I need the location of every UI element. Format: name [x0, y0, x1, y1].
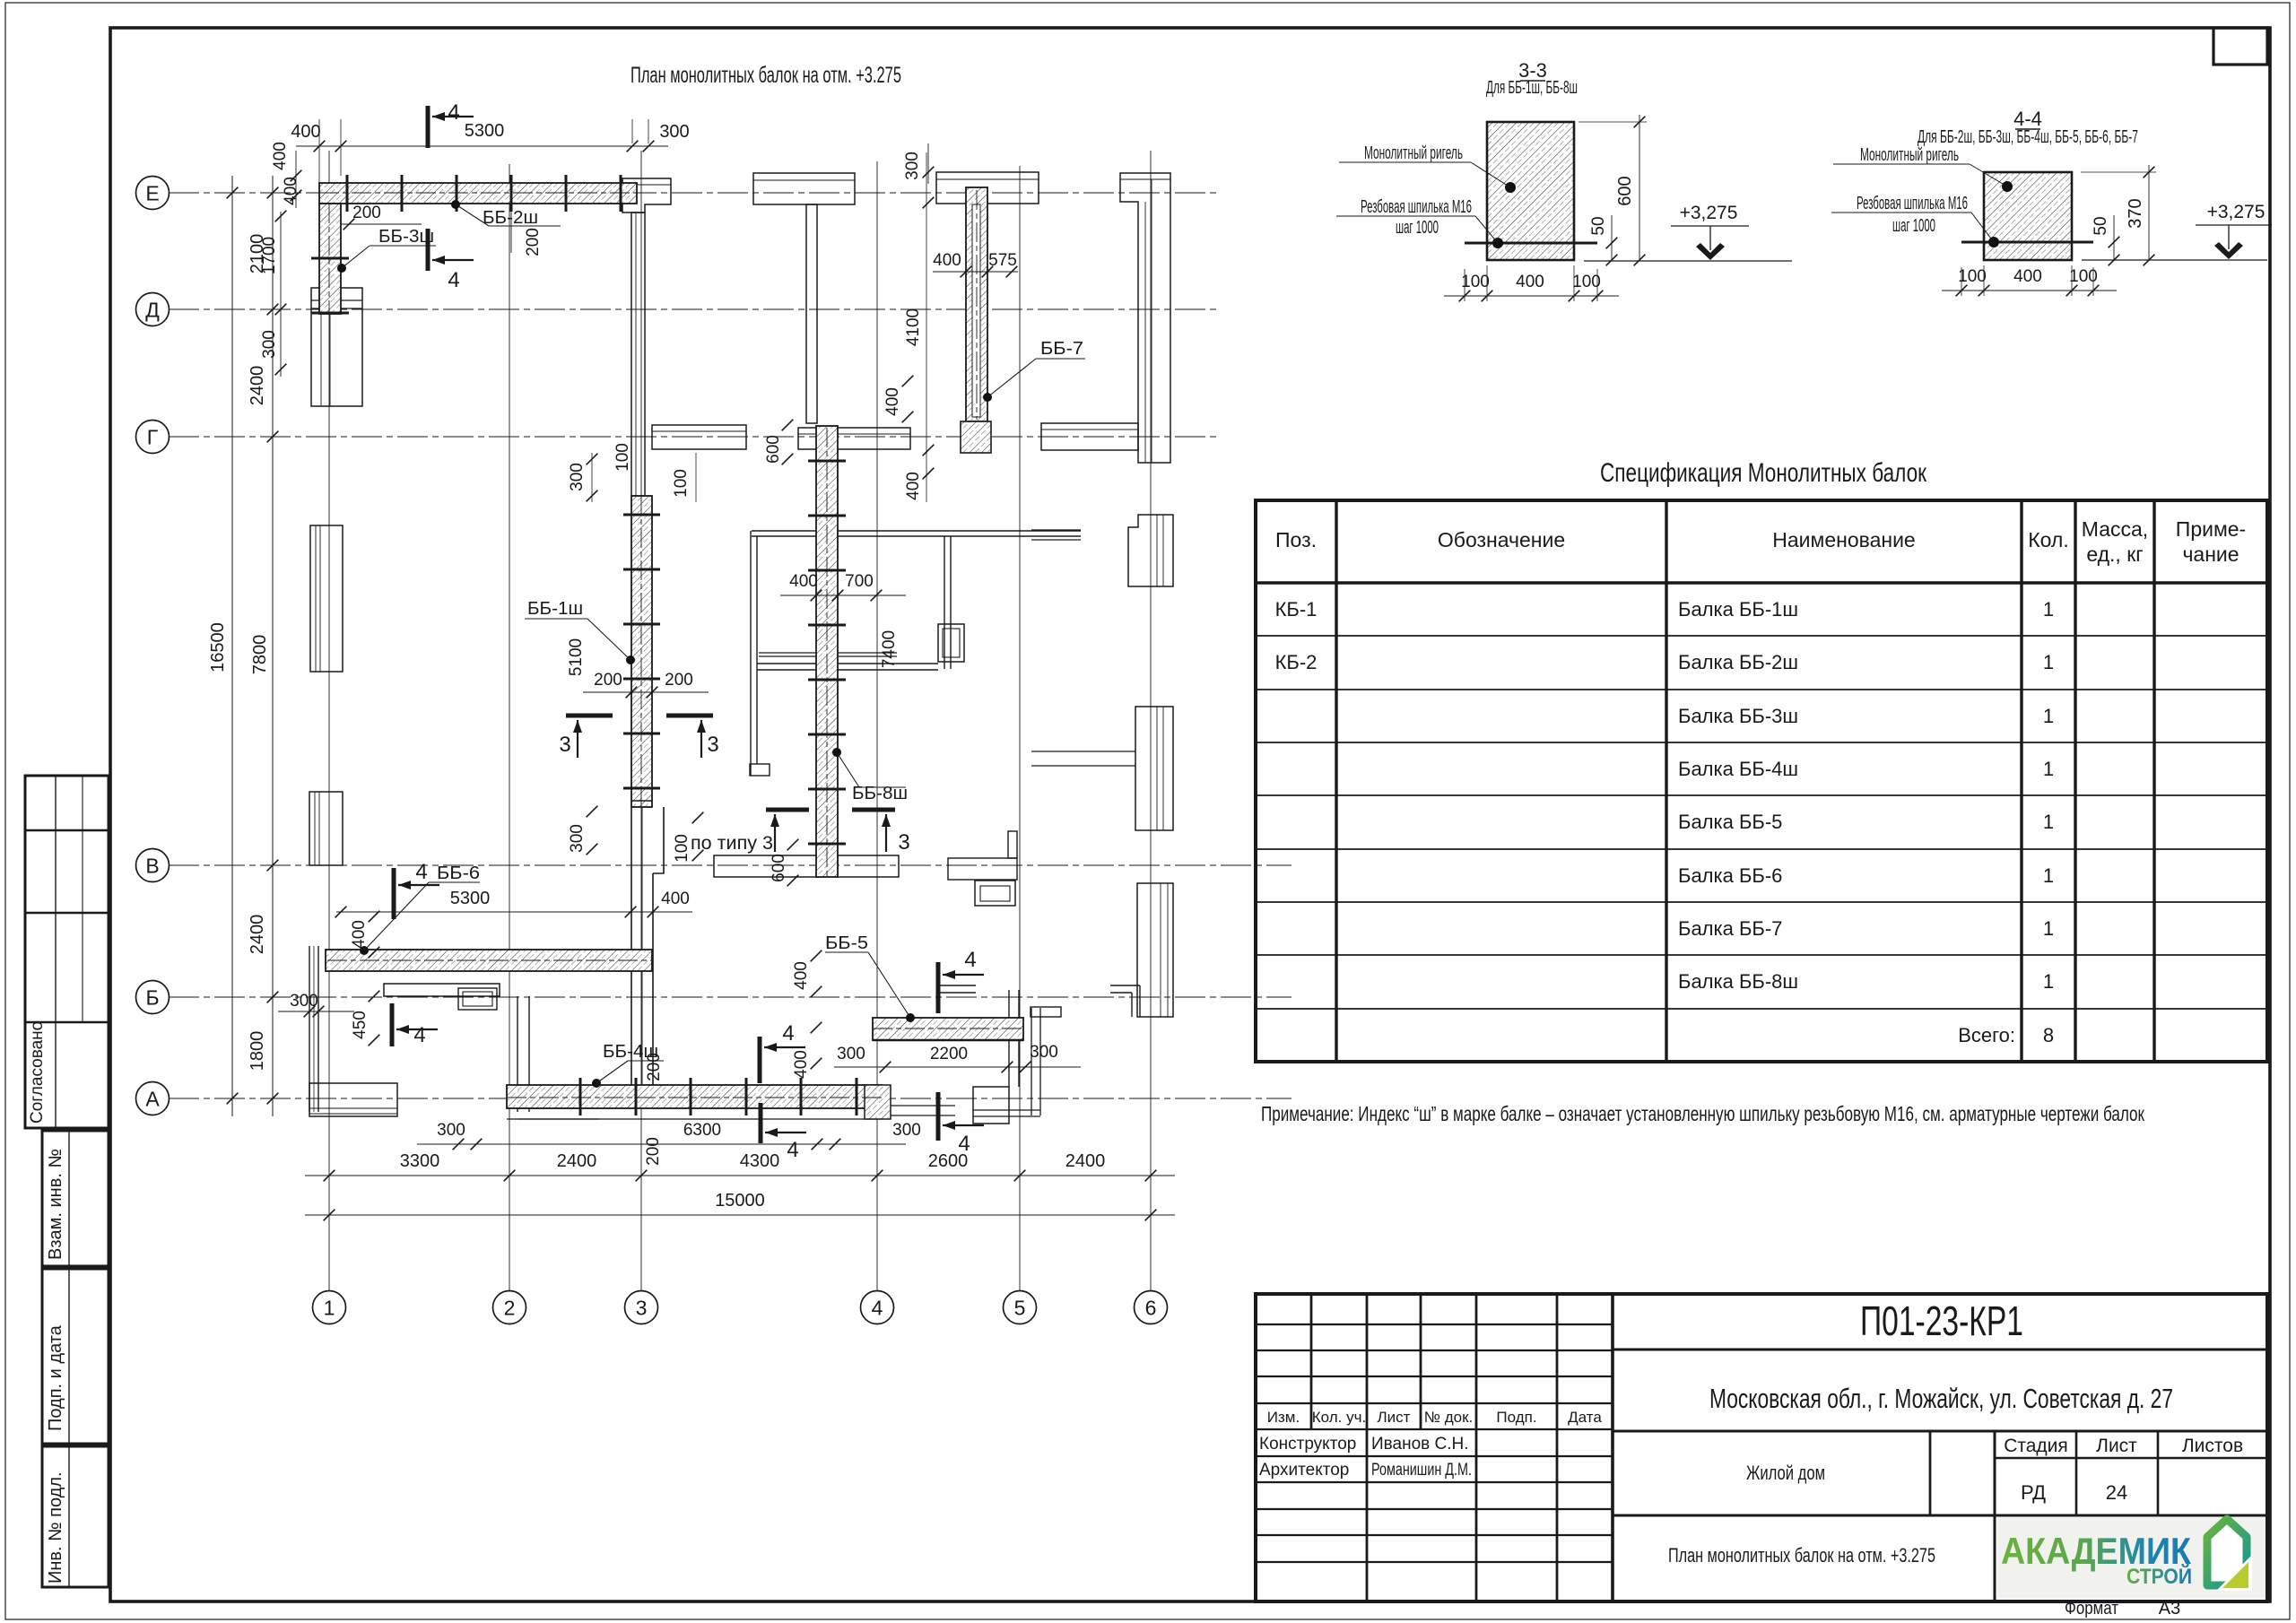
- svg-text:1: 1: [324, 1296, 335, 1319]
- stud tick BB-8sh 7: [808, 788, 846, 791]
- interior small wall x1150 y591: [1031, 529, 1081, 531]
- section mark 3 left arrow: [577, 720, 578, 758]
- axis circle D: [136, 293, 170, 326]
- centerline BB-5: [873, 1028, 1023, 1029]
- svg-text:Изм.: Изм.: [1267, 1409, 1300, 1426]
- centerline BB-6: [327, 959, 652, 961]
- wall on axis A segment x990: [888, 1105, 955, 1107]
- stud tick BB-1sh 1: [623, 514, 660, 516]
- svg-text:Дата: Дата: [1568, 1409, 1602, 1426]
- svg-text:Б: Б: [145, 985, 159, 1009]
- wall on axis A under beam bottom line: [507, 1118, 882, 1120]
- svg-text:П01-23-КР1: П01-23-КР1: [1860, 1298, 2023, 1344]
- svg-text:Монолитный ригель: Монолитный ригель: [1860, 145, 1959, 165]
- svg-text:Масса,: Масса,: [2082, 517, 2148, 541]
- section 4-4 ground line: [2082, 259, 2267, 261]
- svg-text:Взам. инв. №: Взам. инв. №: [46, 1149, 65, 1260]
- left stamp: Soglasovano box: [25, 776, 109, 1128]
- axis line 3 vertical: [640, 151, 642, 1291]
- wall top right horizontal on axis E: [936, 172, 1039, 204]
- section mark 3 typ left bar: [766, 808, 809, 812]
- title block stage grid: [1929, 1431, 1932, 1515]
- stud tick BB-3sh 2: [311, 312, 349, 315]
- svg-text:50: 50: [2092, 216, 2110, 235]
- section mark 3 right arrow: [700, 720, 702, 758]
- centerline axis 1 through BB-3sh: [328, 204, 330, 316]
- axis circle 6: [1135, 1291, 1168, 1324]
- spec table grid: [1256, 500, 2267, 1062]
- stud tick BB-2sh 4: [510, 175, 513, 212]
- svg-text:1: 1: [2043, 705, 2054, 727]
- axis circle 5: [1004, 1291, 1037, 1324]
- svg-text:Кол. уч.: Кол. уч.: [1312, 1409, 1366, 1426]
- section 4-4 rigel dot: [2002, 181, 2013, 192]
- stud tick BB-4sh 4: [745, 1078, 748, 1115]
- wall arm top right of step: [1031, 1007, 1061, 1017]
- left dim line axis segments: [272, 176, 274, 1116]
- svg-text:А3: А3: [2159, 1599, 2180, 1619]
- svg-text:Балка ББ-5: Балка ББ-5: [1678, 811, 1782, 833]
- dim 300-6300-300 line below A: [417, 1143, 906, 1145]
- title block frame: [1256, 1294, 2267, 1601]
- svg-text:ББ-2ш: ББ-2ш: [483, 208, 538, 228]
- section 4-4 dim 370: [2148, 165, 2150, 261]
- axis line E horizontal: [169, 192, 1218, 194]
- svg-text:Формат: Формат: [2065, 1599, 2118, 1619]
- wall T horizontal on axis E: [753, 173, 855, 204]
- wall pier axis1 G-V upper: [310, 525, 343, 672]
- svg-text:400: 400: [1516, 273, 1544, 291]
- interior wall horizontal y743: [757, 663, 938, 664]
- svg-text:1: 1: [2043, 598, 2054, 621]
- dim 400-575 BB-7: [933, 271, 1018, 273]
- axis circle 2: [493, 1291, 526, 1324]
- window box below V: [975, 881, 1015, 906]
- svg-text:1: 1: [2043, 758, 2054, 780]
- bottom dim line segments: [305, 1175, 1175, 1176]
- title block bottom band separator: [1613, 1515, 2267, 1517]
- svg-text:300: 300: [568, 824, 587, 853]
- svg-text:Кол.: Кол.: [2028, 528, 2069, 551]
- axis line B horizontal: [169, 996, 1291, 998]
- section 4-4 concrete body: [1984, 172, 2072, 260]
- svg-text:5100: 5100: [567, 638, 586, 676]
- stud tick BB-4sh 2: [635, 1078, 638, 1115]
- wall on axis V left part: [714, 855, 818, 877]
- svg-text:100: 100: [672, 469, 691, 498]
- beam BB-8sh vertical: [816, 426, 838, 877]
- svg-text:2400: 2400: [557, 1151, 597, 1171]
- centerline BB-8sh: [826, 428, 828, 877]
- wall vertical x1125 below B: [1008, 990, 1010, 1087]
- axis circle V: [136, 849, 170, 882]
- svg-text:Балка ББ-6: Балка ББ-6: [1678, 864, 1782, 887]
- svg-text:РД: РД: [2021, 1481, 2046, 1504]
- section mark 3 left bar: [566, 714, 613, 718]
- wall below BB-1sh: [631, 807, 632, 1085]
- svg-text:2400: 2400: [248, 915, 267, 955]
- svg-text:Иванов С.Н.: Иванов С.Н.: [1371, 1435, 1469, 1454]
- dim 400-700 mid: [780, 595, 906, 596]
- section mark 4 BB6 bottom arrow: [396, 1028, 438, 1030]
- stud tick BB-2sh 6: [620, 175, 622, 212]
- svg-text:А: А: [145, 1087, 160, 1110]
- beam BB-6 horizontal: [326, 950, 652, 971]
- wall pier axis1 at D: [311, 288, 362, 406]
- svg-text:100: 100: [1958, 267, 1987, 286]
- centerline axis E through BB-2sh: [319, 192, 637, 194]
- svg-text:2600: 2600: [928, 1151, 969, 1171]
- section 3-3 dim 50: [1611, 215, 1613, 261]
- svg-text:7400: 7400: [880, 630, 899, 668]
- svg-text:Подп.: Подп.: [1496, 1409, 1536, 1426]
- axis circle E: [136, 177, 170, 210]
- axis line 4 vertical: [876, 161, 878, 1291]
- svg-text:600: 600: [764, 435, 783, 464]
- stud tick BB-4sh 6: [856, 1078, 858, 1115]
- stud tick BB-1sh 2: [623, 568, 660, 571]
- interior pier right x1258 upper: [1128, 515, 1173, 586]
- svg-text:700: 700: [845, 572, 874, 591]
- svg-text:чание: чание: [2182, 542, 2239, 566]
- dim extension line x1033: [926, 152, 927, 502]
- section mark 3 typ right arrow: [885, 814, 887, 852]
- svg-text:200: 200: [665, 671, 693, 690]
- svg-text:1: 1: [2043, 651, 2054, 673]
- bottom dim line 15000: [305, 1214, 1175, 1216]
- svg-text:Лист: Лист: [2096, 1436, 2137, 1456]
- centerline axis A through BB-4sh: [507, 1097, 882, 1098]
- svg-text:Примечание: Индекс “ш” в марке: Примечание: Индекс “ш” в марке балке – о…: [1261, 1102, 2145, 1125]
- interior wall vertical x1056: [944, 536, 945, 669]
- wall on axis B segment right of BB-5: [940, 985, 976, 986]
- pier axis6 below V: [1137, 883, 1173, 1017]
- section 4-4 dim 50: [2113, 215, 2115, 261]
- wall left room B-A vertical: [309, 946, 310, 1112]
- svg-text:300: 300: [1030, 1043, 1058, 1062]
- svg-text:1: 1: [2043, 917, 2054, 940]
- wall notch at V on BB-1sh wall: [653, 807, 664, 873]
- svg-text:300: 300: [903, 152, 922, 180]
- svg-text:Приме-: Приме-: [2176, 517, 2246, 541]
- section 3-3 stud dot: [1492, 238, 1503, 248]
- left stamp: Vzam inv box: [42, 1131, 109, 1266]
- svg-text:В: В: [145, 854, 159, 877]
- svg-text:2100: 2100: [248, 234, 267, 274]
- svg-text:Стадия: Стадия: [2004, 1436, 2068, 1456]
- title block doc number: [1613, 1349, 2267, 1351]
- stud tick BB-1sh 3: [623, 623, 660, 626]
- svg-text:шаг 1000: шаг 1000: [1396, 218, 1439, 238]
- leader BB-6: [360, 946, 369, 955]
- svg-text:100: 100: [613, 443, 632, 472]
- svg-text:4: 4: [448, 100, 459, 125]
- svg-text:3: 3: [707, 733, 718, 757]
- svg-text:ББ-5: ББ-5: [825, 933, 868, 953]
- interior wall horizontal y594: [752, 530, 1081, 532]
- section 4-4 bottom dims: [1961, 267, 1962, 296]
- svg-text:Листов: Листов: [2182, 1436, 2243, 1456]
- svg-text:100: 100: [673, 834, 691, 863]
- section mark 4 BB4sh upper arrow: [764, 1046, 805, 1048]
- axis line A horizontal: [169, 1098, 1291, 1099]
- wall on axis G far right: [1041, 423, 1138, 450]
- svg-text:Балка ББ-3ш: Балка ББ-3ш: [1678, 705, 1798, 727]
- svg-text:Согласовано: Согласовано: [28, 1021, 47, 1124]
- svg-text:400: 400: [2013, 267, 2042, 286]
- svg-text:План монолитных балок на отм.: План монолитных балок на отм. +3.275: [1668, 1544, 1935, 1567]
- stud tick BB-2sh 5: [565, 175, 568, 212]
- section mark 4 BB5 bottom bar: [936, 1092, 941, 1141]
- svg-text:400: 400: [792, 961, 811, 990]
- svg-text:Всего:: Всего:: [1958, 1024, 2015, 1046]
- svg-text:15000: 15000: [715, 1191, 765, 1211]
- wall vertical x1150 step: [1031, 1008, 1032, 1115]
- stud tick BB-8sh 5: [808, 679, 846, 681]
- svg-text:200: 200: [352, 204, 381, 222]
- svg-text:Для ББ-1ш, ББ-8ш: Для ББ-1ш, ББ-8ш: [1486, 78, 1578, 98]
- stud tick BB-8sh 1: [808, 460, 846, 463]
- stud tick BB-4sh 5: [800, 1078, 803, 1115]
- left inner dim line segments: [280, 212, 282, 377]
- section 3-3 dim 600: [1639, 115, 1640, 261]
- svg-text:200: 200: [594, 671, 622, 690]
- svg-text:Монолитный ригель: Монолитный ригель: [1364, 143, 1463, 163]
- svg-text:4300: 4300: [740, 1151, 780, 1171]
- svg-text:+3,275: +3,275: [1680, 203, 1738, 223]
- svg-text:ББ-1ш: ББ-1ш: [527, 599, 583, 619]
- section mark 4 top arrow: [432, 116, 474, 117]
- svg-text:шаг 1000: шаг 1000: [1892, 216, 1935, 236]
- beam BB-5 horizontal: [873, 1018, 1023, 1040]
- interior wall foot: [750, 764, 770, 776]
- wall L at axis6 below B: [1110, 985, 1140, 986]
- wall on axis G right of BB-8sh: [798, 428, 910, 449]
- svg-text:4: 4: [448, 268, 459, 292]
- axis line 1 vertical: [328, 151, 330, 1291]
- svg-text:400: 400: [789, 572, 818, 591]
- stud tick BB-2sh 1: [346, 175, 349, 212]
- stud tick BB-2sh 3: [456, 175, 458, 212]
- interior wall arm to pier: [1031, 751, 1135, 752]
- beam BB-7 vertical: [966, 187, 987, 421]
- svg-text:400: 400: [291, 122, 320, 142]
- svg-text:Романишин Д.М.: Романишин Д.М.: [1371, 1461, 1472, 1480]
- section mark 4 BB6 bottom bar: [390, 1003, 395, 1046]
- svg-text:600: 600: [770, 854, 788, 882]
- wall left room B-A bottom thick: [309, 1083, 397, 1116]
- leader BB-1sh: [626, 655, 635, 664]
- wall corner axis3 top: [622, 178, 671, 213]
- svg-text:200: 200: [524, 228, 543, 256]
- axis line V horizontal: [169, 864, 1291, 866]
- svg-text:1: 1: [2043, 970, 2054, 993]
- elevator shaft rect: [938, 624, 964, 662]
- window in axis B wall: [458, 988, 497, 1010]
- svg-text:Жилой дом: Жилой дом: [1746, 1462, 1825, 1484]
- section mark 3 typ right bar: [852, 808, 895, 812]
- section mark 4 BB5 top arrow: [943, 974, 984, 976]
- stud tick BB-1sh 6: [623, 787, 660, 790]
- leader BB-5: [906, 1013, 915, 1022]
- wall corner axis6 top: [1120, 173, 1170, 463]
- stud tick BB-1sh 5: [623, 733, 660, 735]
- beam BB-1sh vertical at axis3: [631, 496, 652, 807]
- svg-text:400: 400: [661, 890, 690, 908]
- axis line 2 vertical: [509, 164, 510, 1291]
- svg-text:Московская обл., г. Можайск, у: Московская обл., г. Можайск, ул. Советск…: [1709, 1383, 2173, 1414]
- svg-text:КБ-2: КБ-2: [1275, 651, 1318, 673]
- svg-text:3300: 3300: [400, 1151, 440, 1171]
- svg-text:4: 4: [787, 1138, 798, 1162]
- svg-text:2: 2: [504, 1296, 516, 1319]
- svg-text:100: 100: [1572, 273, 1601, 291]
- stud tick BB-8sh 8: [808, 843, 846, 846]
- stud tick BB-1sh 4: [623, 678, 660, 681]
- svg-text:Балка ББ-8ш: Балка ББ-8ш: [1678, 970, 1798, 993]
- stud tick BB-3sh 1: [311, 257, 349, 260]
- wall L at V right horizontal: [948, 858, 1017, 880]
- leader BB-4sh: [592, 1079, 601, 1088]
- wall L at V right vertical: [1008, 831, 1017, 858]
- svg-text:Балка ББ-2ш: Балка ББ-2ш: [1678, 651, 1798, 673]
- svg-text:2200: 2200: [930, 1045, 968, 1063]
- svg-text:400: 400: [350, 920, 369, 949]
- svg-text:Поз.: Поз.: [1275, 528, 1317, 551]
- svg-text:1: 1: [2043, 864, 2054, 887]
- svg-text:4: 4: [415, 860, 427, 884]
- logo background: [1997, 1517, 2266, 1598]
- svg-text:3: 3: [636, 1296, 648, 1319]
- wall shelf block left of step: [973, 1087, 1009, 1124]
- svg-text:5300: 5300: [465, 121, 505, 141]
- svg-text:Спецификация Монолитных балок: Спецификация Монолитных балок: [1600, 458, 1927, 488]
- svg-text:16500: 16500: [208, 622, 228, 673]
- section 3-3 rigel dot: [1505, 182, 1516, 193]
- svg-text:100: 100: [1461, 273, 1490, 291]
- beam BB-3sh vertical at axis1: [319, 204, 341, 314]
- svg-text:Для ББ-2ш, ББ-3ш, ББ-4ш, ББ-5,: Для ББ-2ш, ББ-3ш, ББ-4ш, ББ-5, ББ-6, ББ-…: [1918, 127, 2138, 147]
- wall pier axis1 above V: [309, 792, 343, 865]
- svg-text:ед., кг: ед., кг: [2086, 542, 2143, 566]
- svg-text:2400: 2400: [248, 366, 267, 406]
- section 4-4 stud dot: [1988, 237, 1999, 247]
- svg-text:Балка ББ-4ш: Балка ББ-4ш: [1678, 758, 1798, 780]
- dim 5300 at BB-6: [336, 911, 692, 913]
- svg-text:7800: 7800: [250, 635, 270, 675]
- svg-text:2400: 2400: [1065, 1151, 1106, 1171]
- svg-text:Конструктор: Конструктор: [1259, 1435, 1356, 1454]
- left stamp: Inv N podl box: [42, 1446, 109, 1587]
- axis line G horizontal: [169, 436, 1218, 438]
- title block left grid: [1310, 1294, 1313, 1429]
- stud tick BB-4sh 1: [579, 1078, 582, 1115]
- centerline BB-7: [976, 190, 978, 420]
- section mark 4 BB5 bottom arrow: [943, 1124, 984, 1126]
- leader BB-3sh: [337, 264, 346, 273]
- svg-text:4100: 4100: [904, 308, 923, 346]
- svg-text:300: 300: [659, 122, 689, 142]
- beam BB-4sh horizontal on axis A: [507, 1085, 882, 1108]
- interior wall vertical x839: [750, 531, 752, 776]
- svg-text:4: 4: [964, 948, 976, 972]
- stud tick BB-2sh 2: [401, 175, 404, 212]
- svg-text:6300: 6300: [683, 1121, 721, 1140]
- section 3-3 stud line: [1465, 242, 1597, 245]
- axis circle 3: [625, 1291, 658, 1324]
- section mark 4 BB4sh lower arrow: [765, 1132, 806, 1133]
- section 3-3 concrete body: [1487, 122, 1574, 260]
- axis circle A: [136, 1082, 170, 1115]
- svg-text:300: 300: [892, 1121, 921, 1140]
- section mark 4 BB6 top arrow: [398, 884, 439, 886]
- svg-text:Е: Е: [145, 181, 159, 204]
- svg-text:1800: 1800: [248, 1031, 267, 1072]
- svg-text:1: 1: [2043, 811, 2054, 833]
- wall bottom horizontals near A: [973, 1109, 1040, 1111]
- axis line D horizontal: [169, 308, 1218, 310]
- section mark 3 typ left arrow: [774, 814, 776, 852]
- svg-text:Резбовая шпилька М16: Резбовая шпилька М16: [1361, 197, 1472, 217]
- axis circle G: [136, 421, 170, 454]
- stud tick BB-8sh 3: [808, 569, 846, 572]
- svg-text:400: 400: [933, 251, 961, 270]
- svg-text:300: 300: [837, 1045, 865, 1063]
- wall on axis G left of BB-8sh: [652, 425, 746, 449]
- stud tick BB-8sh 2: [808, 515, 846, 517]
- svg-text:370: 370: [2126, 198, 2145, 228]
- svg-text:400: 400: [883, 387, 902, 416]
- leader BB-2sh: [451, 200, 460, 209]
- section 4-4 stud line: [1961, 241, 2093, 244]
- svg-text:400: 400: [271, 142, 290, 170]
- title block address cell: [1613, 1430, 2267, 1433]
- svg-text:Архитектор: Архитектор: [1259, 1461, 1349, 1480]
- svg-text:Д: Д: [145, 298, 160, 321]
- svg-text:300: 300: [260, 330, 279, 359]
- svg-text:575: 575: [988, 251, 1017, 270]
- beam BB-1sh lower end lines: [631, 800, 652, 802]
- left stamp: Podp i data box: [42, 1269, 109, 1444]
- svg-text:ББ-8ш: ББ-8ш: [852, 784, 908, 803]
- centerline axis 3 through BB-1sh: [640, 496, 642, 807]
- svg-text:№ док.: № док.: [1424, 1409, 1474, 1426]
- svg-text:3: 3: [559, 733, 570, 757]
- svg-text:КБ-1: КБ-1: [1275, 598, 1318, 621]
- svg-text:5: 5: [1014, 1296, 1026, 1319]
- interior wall horizontal y728: [759, 652, 897, 654]
- svg-text:300: 300: [568, 463, 587, 491]
- wall vertical below axis3 corner: [631, 213, 645, 496]
- svg-text:СТРОЙ: СТРОЙ: [2126, 1564, 2192, 1589]
- svg-text:+3,275: +3,275: [2207, 202, 2266, 222]
- section mark 4 BB5 top bar: [936, 962, 941, 1013]
- svg-text:200: 200: [644, 1137, 663, 1166]
- svg-text:План монолитных балок на отм.: План монолитных балок на отм. +3.275: [631, 63, 901, 88]
- beam BB-2sh horizontal on axis E: [319, 183, 637, 204]
- svg-text:600: 600: [1615, 176, 1635, 205]
- svg-text:ББ-6: ББ-6: [437, 864, 480, 883]
- svg-text:Инв. № подл.: Инв. № подл.: [46, 1471, 65, 1584]
- svg-text:Лист: Лист: [1378, 1409, 1411, 1426]
- top right corner doc box: [2213, 28, 2267, 65]
- wall on axis B left segment: [384, 984, 500, 996]
- svg-text:Г: Г: [147, 425, 159, 448]
- section mark 4 BB4sh upper bar: [758, 1037, 762, 1083]
- section mark 4 BB4sh lower bar: [759, 1103, 763, 1143]
- svg-text:6: 6: [1145, 1296, 1157, 1319]
- wall vertical x577 B to A: [517, 996, 518, 1112]
